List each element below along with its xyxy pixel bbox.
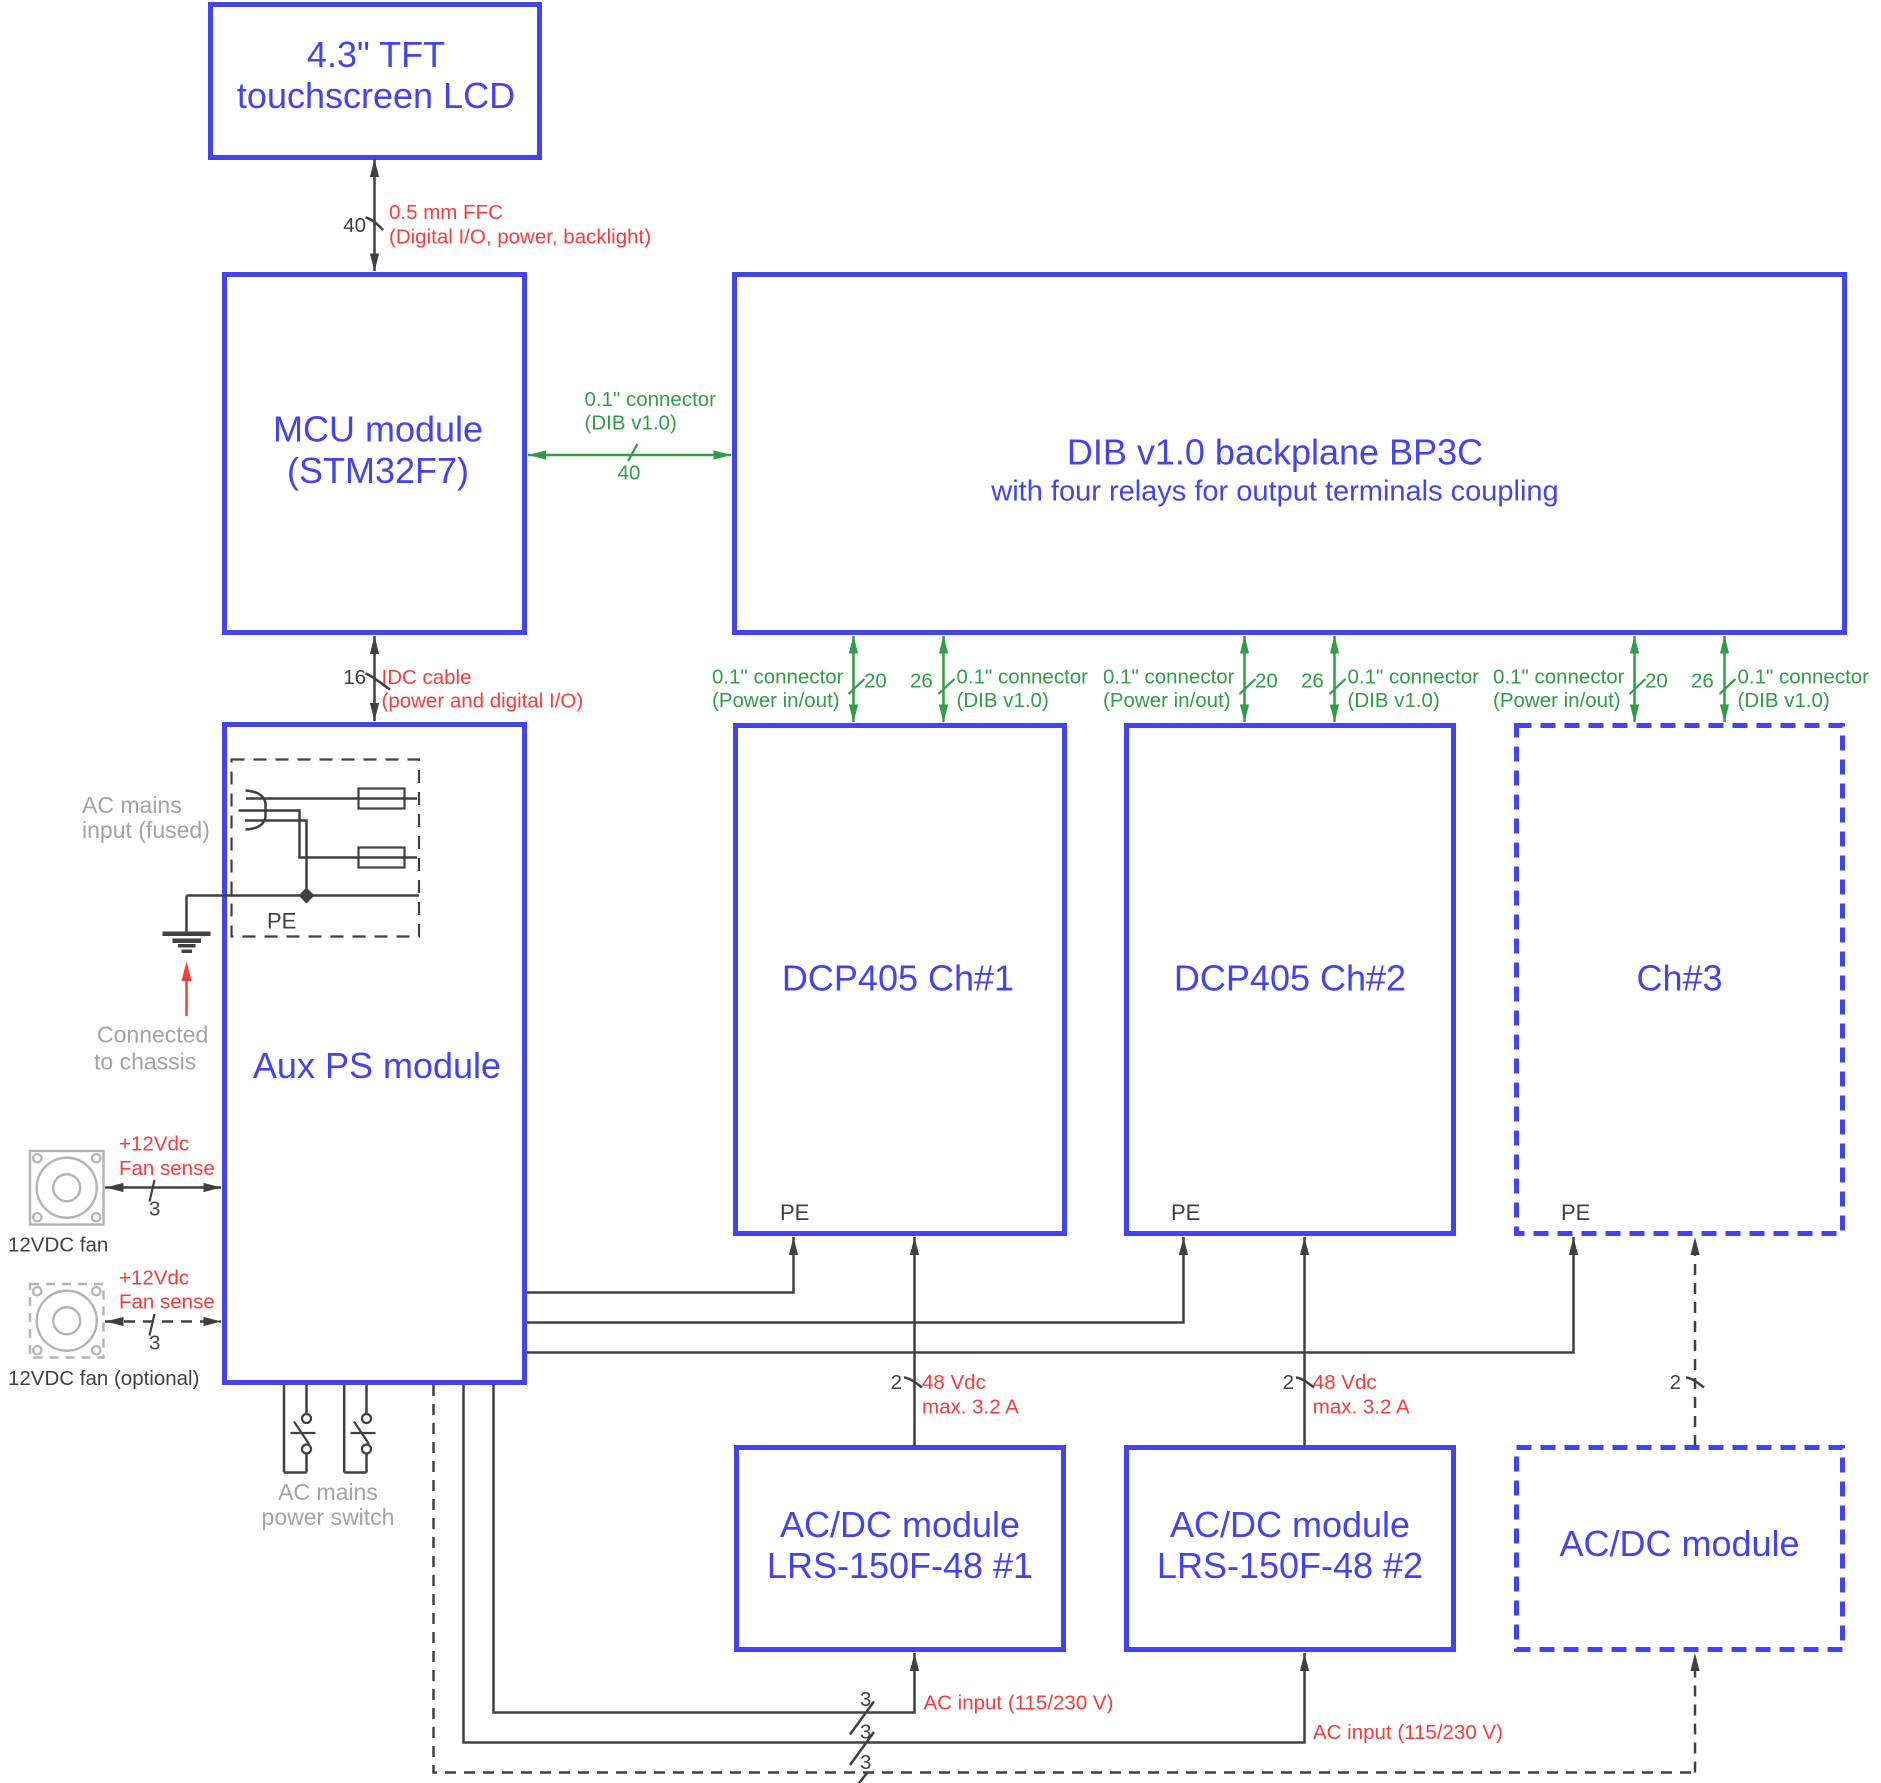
svg-text:(STM32F7): (STM32F7) (287, 450, 469, 491)
svg-text:with four relays for output te: with four relays for output terminals co… (990, 475, 1558, 507)
label: (DIB v1.0) Ch3 (1738, 689, 1830, 712)
svg-text:PE: PE (780, 1200, 809, 1225)
block: DCP405 Ch#2 (1127, 726, 1454, 1234)
label: 0.1in connector DIB Ch3 (1738, 665, 1870, 688)
wire: AC input AuxPS to ACDC2 (464, 1385, 1310, 1743)
switch: AC mains power switch pole 1 (284, 1385, 316, 1473)
wire: 0.1in connector MCU-DIB (528, 450, 732, 459)
svg-text:20: 20 (1645, 669, 1668, 692)
svg-text:3: 3 (860, 1720, 871, 1743)
label: AC/DC module #2 (1170, 1504, 1410, 1545)
wire: PE rail (187, 894, 420, 897)
label: PE (inlet) (267, 909, 296, 934)
tick: AC width 3 (2) (850, 1732, 874, 1765)
label: (DIB v1.0) (MCU-DIB) (585, 411, 677, 434)
label: LRS-150F-48 #1 (767, 1545, 1033, 1586)
svg-text:+12Vdc: +12Vdc (119, 1266, 189, 1289)
component: 12VDC fan (optional) (30, 1284, 104, 1358)
label: 12VDC fan (optional) (8, 1367, 199, 1390)
svg-text:40: 40 (343, 214, 366, 237)
svg-text:AC input (115/230 V): AC input (115/230 V) (924, 1691, 1114, 1714)
label: 0.1in connector (MCU-DIB) (585, 388, 717, 411)
svg-text:0.1" connector: 0.1" connector (712, 665, 844, 688)
label: with four relays for output terminals coupling (990, 475, 1558, 507)
svg-text:(Power in/out): (Power in/out) (1103, 689, 1231, 712)
label: AC/DC module #1 (780, 1504, 1020, 1545)
svg-text:40: 40 (618, 462, 641, 485)
svg-text:12VDC fan (optional): 12VDC fan (optional) (8, 1367, 199, 1390)
label: AC mains (inlet) (82, 792, 182, 818)
label: 3 fan1 (149, 1197, 160, 1220)
svg-text:0.1" connector: 0.1" connector (1738, 665, 1870, 688)
svg-text:0.5 mm FFC: 0.5 mm FFC (389, 201, 503, 224)
svg-text:26: 26 (1301, 669, 1324, 692)
wire: 0.1in DIB connector DIB-Ch3 (1720, 636, 1729, 723)
wire: PE pin (245, 821, 307, 896)
label: (Power in/out) Ch1 (712, 689, 840, 712)
wire: 0.1in power connector DIB-Ch1 (849, 636, 858, 723)
svg-text:48 Vdc: 48 Vdc (922, 1371, 986, 1394)
box: AC mains input dashed enclosure (232, 760, 420, 937)
svg-text:DIB v1.0 backplane BP3C: DIB v1.0 backplane BP3C (1067, 431, 1483, 472)
svg-text:AC/DC module: AC/DC module (780, 1504, 1020, 1545)
tick: DIB connector width 26 Ch3 (1720, 679, 1736, 694)
svg-text:LRS-150F-48 #2: LRS-150F-48 #2 (1157, 1545, 1423, 1586)
tick: IDC bus width 16 (366, 674, 391, 690)
label: LRS-150F-48 #2 (1157, 1545, 1423, 1586)
svg-text:AC/DC module: AC/DC module (1170, 1504, 1410, 1545)
svg-text:3: 3 (149, 1197, 160, 1220)
tick: FFC bus width 40 (366, 218, 384, 231)
wire: 0.5mm FFC LCD-MCU (370, 159, 379, 272)
svg-text:touchscreen LCD: touchscreen LCD (237, 75, 515, 116)
svg-text:(DIB v1.0): (DIB v1.0) (1348, 689, 1440, 712)
svg-text:LRS-150F-48 #1: LRS-150F-48 #1 (767, 1545, 1033, 1586)
label: 3 (AC2) (860, 1720, 871, 1743)
label: IDC cable (382, 666, 472, 689)
wire: PE AuxPS to Ch3 (527, 1237, 1578, 1353)
label: AC input 2 (1313, 1721, 1503, 1744)
tick: 48V width 2 Ch3 (1686, 1378, 1704, 1388)
wire: 48Vdc ACDC2 to Ch2 (1300, 1237, 1309, 1446)
wire: 48Vdc ACDC3 to Ch3 (dashed) (1690, 1237, 1699, 1446)
label: 3 fan2 (149, 1331, 160, 1354)
label: 48 Vdc Ch1 (922, 1371, 986, 1394)
svg-text:3: 3 (860, 1751, 871, 1774)
wire: PE AuxPS to Ch2 (527, 1237, 1188, 1323)
ground: chassis earth symbol (163, 932, 211, 954)
wire: AC input AuxPS to ACDC3 (dashed) (434, 1385, 1700, 1773)
block: AC/DC module (optional, dashed) (1517, 1448, 1843, 1650)
svg-text:AC/DC module: AC/DC module (1559, 1523, 1799, 1564)
label: 2 (Ch1) (891, 1371, 902, 1394)
label: (power and digital I/O) (382, 690, 584, 713)
label: (Power in/out) Ch3 (1493, 689, 1621, 712)
wire: neutral pin to fuse F2 (239, 811, 418, 858)
label: 0.5 mm FFC (389, 201, 503, 224)
tick: power connector width 20 Ch1 (849, 679, 865, 694)
label: AC/DC module #3 (1559, 1523, 1799, 1564)
svg-text:PE: PE (1561, 1200, 1590, 1225)
svg-text:26: 26 (1691, 669, 1714, 692)
svg-text:IDC cable: IDC cable (382, 666, 472, 689)
svg-text:MCU module: MCU module (273, 409, 483, 450)
label: 2 (Ch2) (1283, 1371, 1294, 1394)
label: 26 Ch1 (910, 669, 933, 692)
svg-text:AC input (115/230 V): AC input (115/230 V) (1313, 1721, 1503, 1744)
svg-text:Connected: Connected (97, 1021, 208, 1047)
svg-text:3: 3 (860, 1688, 871, 1711)
svg-text:(Power in/out): (Power in/out) (712, 689, 840, 712)
tick: power connector width 20 Ch2 (1240, 679, 1256, 694)
svg-text:4.3" TFT: 4.3" TFT (307, 34, 445, 75)
label: power switch (262, 1504, 395, 1530)
svg-text:2: 2 (1670, 1371, 1681, 1394)
wire: fan2 cable (dashed) (105, 1317, 222, 1326)
block: AC/DC module LRS-150F-48 #2 (1127, 1448, 1454, 1650)
svg-text:16: 16 (343, 666, 366, 689)
label: 0.1in connector DIB Ch2 (1348, 665, 1480, 688)
label: touchscreen LCD (237, 75, 515, 116)
label: (DIB v1.0) Ch1 (957, 689, 1049, 712)
label: 0.1in connector power Ch3 (1493, 665, 1625, 688)
arrow: connected to chassis (182, 962, 192, 1017)
label: 48 Vdc Ch2 (1313, 1371, 1377, 1394)
label: DIB v1.0 backplane BP3C (1067, 431, 1483, 472)
label: (STM32F7) (287, 450, 469, 491)
wire: IDC cable MCU-AuxPS (370, 636, 379, 721)
label: AC input 1 (924, 1691, 1114, 1714)
block: MCU module (STM32F7) (225, 275, 525, 633)
svg-text:Ch#3: Ch#3 (1636, 958, 1722, 999)
wire: 0.1in DIB connector DIB-Ch1 (939, 636, 948, 723)
svg-text:input (fused): input (fused) (82, 817, 210, 843)
label: 20 Ch1 (864, 669, 887, 692)
label: PE Ch1 (780, 1200, 809, 1225)
label: DCP405 Ch#1 (782, 958, 1014, 999)
svg-text:0.1" connector: 0.1" connector (1103, 665, 1235, 688)
svg-text:DCP405 Ch#1: DCP405 Ch#1 (782, 958, 1014, 999)
label: 20 Ch2 (1255, 669, 1278, 692)
wire: 0.1in power connector DIB-Ch3 (1630, 636, 1639, 723)
label: DCP405 Ch#2 (1174, 958, 1406, 999)
block: 4.3in TFT touchscreen LCD (211, 5, 540, 158)
label: PE Ch3 (1561, 1200, 1590, 1225)
svg-text:12VDC fan: 12VDC fan (8, 1233, 108, 1256)
label: 26 Ch3 (1691, 669, 1714, 692)
tick: 48V width 2 Ch2 (1296, 1378, 1314, 1388)
label: (Power in/out) Ch2 (1103, 689, 1231, 712)
symbol: AC inlet plug (246, 791, 266, 830)
label: 40 (FFC) (343, 214, 366, 237)
svg-text:2: 2 (1283, 1371, 1294, 1394)
tick: fan1 width 3 (150, 1180, 155, 1202)
svg-text:power switch: power switch (262, 1504, 395, 1530)
label: +12Vdc fan2 (119, 1266, 189, 1289)
label: max. 3.2 A Ch1 (922, 1395, 1019, 1418)
wire: 48Vdc ACDC1 to Ch1 (910, 1237, 919, 1446)
fuse F2 (359, 848, 405, 868)
block: AC/DC module LRS-150F-48 #1 (737, 1448, 1064, 1650)
block: DCP405 Ch#1 (736, 726, 1065, 1234)
tick: fan2 width 3 (150, 1314, 155, 1336)
tick: DIB connector width 26 Ch1 (939, 679, 955, 694)
svg-text:(power and digital I/O): (power and digital I/O) (382, 690, 584, 713)
label: 40 (MCU-DIB) (618, 462, 641, 485)
svg-text:(DIB v1.0): (DIB v1.0) (585, 411, 677, 434)
svg-text:AC mains: AC mains (82, 792, 182, 818)
wire: 0.1in DIB connector DIB-Ch2 (1330, 636, 1339, 723)
svg-text:PE: PE (267, 909, 296, 934)
tick: DIB connector width 26 Ch2 (1330, 679, 1346, 694)
label: (Digital I/O, power, backlight) (389, 226, 651, 249)
svg-text:20: 20 (864, 669, 887, 692)
block: Ch#3 (optional, dashed) (1517, 726, 1843, 1234)
svg-text:Fan sense: Fan sense (119, 1291, 215, 1314)
wire: 0.1in power connector DIB-Ch2 (1240, 636, 1249, 723)
svg-text:PE: PE (1171, 1200, 1200, 1225)
label: Fan sense fan1 (119, 1157, 215, 1180)
wire: line pin to fuse F1 (246, 797, 417, 800)
wire: AC input AuxPS to ACDC1 (494, 1385, 920, 1713)
label: 2 (Ch3) (1670, 1371, 1681, 1394)
svg-text:+12Vdc: +12Vdc (119, 1133, 189, 1156)
label: 4.3in TFT (307, 34, 445, 75)
svg-text:(DIB v1.0): (DIB v1.0) (957, 689, 1049, 712)
label: (DIB v1.0) Ch2 (1348, 689, 1440, 712)
svg-text:AC mains: AC mains (278, 1479, 378, 1505)
svg-text:DCP405 Ch#2: DCP405 Ch#2 (1174, 958, 1406, 999)
label: 20 Ch3 (1645, 669, 1668, 692)
svg-text:Aux PS module: Aux PS module (253, 1045, 501, 1086)
wire: PE to chassis ground (185, 896, 188, 932)
svg-text:(DIB v1.0): (DIB v1.0) (1738, 689, 1830, 712)
block: DIB v1.0 backplane BP3C (735, 275, 1845, 633)
fuse F1 (359, 789, 405, 809)
svg-text:to chassis: to chassis (94, 1048, 196, 1074)
wire: fan1 cable (105, 1183, 222, 1192)
tick: MCU-DIB bus width 40 (628, 444, 638, 461)
switch: AC mains power switch pole 2 (344, 1385, 375, 1473)
label: PE Ch2 (1171, 1200, 1200, 1225)
label: MCU module (273, 409, 483, 450)
label: 0.1in connector power Ch2 (1103, 665, 1235, 688)
label: max. 3.2 A Ch2 (1313, 1395, 1410, 1418)
label: Aux PS module (253, 1045, 501, 1086)
component: 12VDC fan (30, 1151, 104, 1225)
junction: PE node (299, 888, 315, 904)
label: 3 (AC1) (860, 1688, 871, 1711)
label: 16 (IDC) (343, 666, 366, 689)
label: 0.1in connector DIB Ch1 (957, 665, 1089, 688)
svg-text:max. 3.2 A: max. 3.2 A (922, 1395, 1019, 1418)
label: +12Vdc fan1 (119, 1133, 189, 1156)
tick: power connector width 20 Ch3 (1630, 679, 1646, 694)
block: Aux PS module (225, 725, 525, 1383)
svg-text:3: 3 (149, 1331, 160, 1354)
svg-text:(Digital I/O, power, backlight: (Digital I/O, power, backlight) (389, 226, 651, 249)
wire: PE AuxPS to Ch1 (527, 1237, 798, 1293)
svg-text:0.1" connector: 0.1" connector (957, 665, 1089, 688)
tick: AC width 3 (1) (850, 1702, 874, 1735)
svg-text:(Power in/out): (Power in/out) (1493, 689, 1621, 712)
label: AC mains (switch) (278, 1479, 378, 1505)
svg-text:Fan sense: Fan sense (119, 1157, 215, 1180)
tick: 48V width 2 Ch1 (904, 1378, 922, 1388)
label: Ch#3 (1636, 958, 1722, 999)
label: Connected (97, 1021, 208, 1047)
label: 0.1in connector power Ch1 (712, 665, 844, 688)
svg-text:26: 26 (910, 669, 933, 692)
svg-text:48 Vdc: 48 Vdc (1313, 1371, 1377, 1394)
svg-text:0.1" connector: 0.1" connector (1348, 665, 1480, 688)
svg-text:2: 2 (891, 1371, 902, 1394)
label: input (fused) (82, 817, 210, 843)
svg-text:0.1" connector: 0.1" connector (585, 388, 717, 411)
svg-text:max. 3.2 A: max. 3.2 A (1313, 1395, 1410, 1418)
label: to chassis (94, 1048, 196, 1074)
tick: AC width 3 (3) (841, 1773, 867, 1783)
label: 3 (AC3) (860, 1751, 871, 1774)
svg-text:0.1" connector: 0.1" connector (1493, 665, 1625, 688)
label: 12VDC fan (8, 1233, 108, 1256)
label: 26 Ch2 (1301, 669, 1324, 692)
label: Fan sense fan2 (119, 1291, 215, 1314)
svg-text:20: 20 (1255, 669, 1278, 692)
